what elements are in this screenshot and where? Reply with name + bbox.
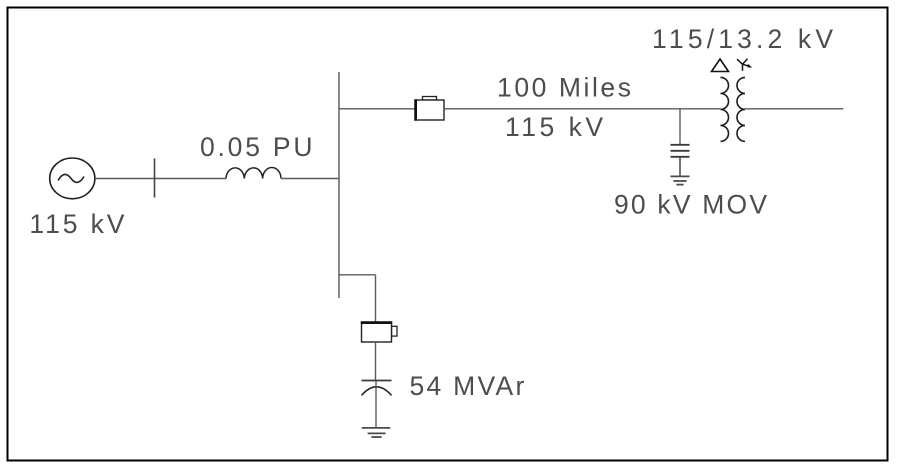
svg-text:115/13.2 kV: 115/13.2 kV xyxy=(652,24,833,54)
transformer 115/13.2 kV primary winding xyxy=(721,77,729,141)
circuit breaker (capacitor bank) xyxy=(361,322,397,342)
inductor 0.05 PU xyxy=(226,168,281,179)
wire bus to capacitor branch (horizontal) xyxy=(339,274,376,276)
wire bus to line breaker xyxy=(339,108,415,110)
svg-text:0.05 PU: 0.05 PU xyxy=(200,132,313,162)
wire capacitor branch down to breaker xyxy=(375,275,377,322)
bus (vertical) xyxy=(338,72,340,298)
svg-text:90 kV MOV: 90 kV MOV xyxy=(614,190,767,220)
AC source 115 kV xyxy=(50,158,95,199)
capacitor 54 MVAr xyxy=(362,381,392,428)
delta winding symbol xyxy=(712,59,729,72)
wire breaker to capacitor xyxy=(375,342,377,381)
ground (capacitor bank) xyxy=(362,428,390,437)
wye winding symbol with ground arrow xyxy=(737,59,752,71)
transformer 115/13.2 kV secondary winding xyxy=(737,77,745,141)
MOV arrester lead wire xyxy=(679,109,681,145)
MOV arrester 90 kV xyxy=(671,145,690,177)
wire transformer secondary to line end xyxy=(745,108,843,110)
wire breaker to transformer xyxy=(444,108,721,110)
wire source to inductor xyxy=(95,178,226,180)
ground (MOV) xyxy=(671,176,690,184)
svg-text:54 MVAr: 54 MVAr xyxy=(410,371,525,401)
circuit breaker (transmission line) xyxy=(415,97,444,121)
node tick on source wire xyxy=(154,159,156,198)
wire inductor to bus xyxy=(281,178,339,180)
svg-text:115 kV: 115 kV xyxy=(29,209,124,239)
svg-text:100 Miles: 100 Miles xyxy=(497,72,631,102)
svg-text:115 kV: 115 kV xyxy=(505,112,603,142)
